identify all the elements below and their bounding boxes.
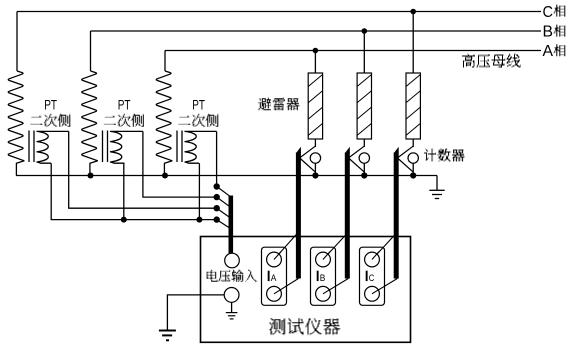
- terminal IB bottom: [316, 286, 331, 301]
- label 二次侧 (PT2): [104, 114, 144, 127]
- clamp upper jaw counter 3: [398, 146, 413, 157]
- wire PT2 secondary hot lead: [143, 131, 217, 197]
- terminal block IB: [311, 247, 336, 305]
- wire PT3 primary drop from bus: [164, 51, 166, 72]
- inductor PT1 primary winding: [8, 71, 24, 161]
- wire instrument earth lead: [167, 295, 224, 330]
- arrester F2 (hatched body): [357, 73, 371, 139]
- cable voltage test lead (thick): [229, 196, 234, 259]
- svg-text:A: A: [543, 43, 554, 60]
- svg-text:C: C: [369, 273, 375, 284]
- terminal block IA: [262, 247, 287, 305]
- cable current test lead 2 (thick): [345, 153, 350, 279]
- arrester F3 (hatched body): [406, 73, 420, 139]
- svg-text:PT: PT: [44, 96, 57, 112]
- instrument box 测试仪器: [201, 237, 411, 343]
- wire tie 4 to voltage cable: [217, 220, 230, 229]
- transformer core PT2: [102, 131, 104, 163]
- terminal voltage input top: [225, 253, 240, 268]
- wire PT1 primary bottom to ground line: [16, 161, 24, 176]
- wire arrester 2 riser: [363, 31, 365, 73]
- wire arrester 1 bottom lead: [314, 139, 316, 147]
- wire arrester 3 bottom lead: [412, 139, 414, 147]
- cable current test lead 1 (thick): [296, 153, 301, 279]
- inductor PT3 primary winding: [156, 71, 172, 161]
- label high-voltage busbar 高压母线: [462, 54, 521, 68]
- node arrester 2 bus junction: [362, 28, 368, 34]
- transformer core PT1: [28, 131, 30, 163]
- label IB: [317, 271, 319, 281]
- wire arrester 3 riser: [412, 12, 414, 74]
- wire clamp IB top: [323, 233, 348, 260]
- wire PT3 primary bottom to ground line: [164, 161, 172, 176]
- wire PT1 primary drop from bus: [16, 12, 18, 72]
- wire PT1 secondary hot lead (drop and run to bundle): [69, 131, 217, 208]
- clamp wedge 1: [296, 147, 301, 153]
- wire PT3 secondary hot lead drop: [216, 131, 218, 186]
- node bundle wire 1: [214, 183, 220, 189]
- wire tie 3 to voltage cable: [217, 208, 230, 217]
- terminal IC top: [365, 252, 380, 267]
- terminal IC bottom: [365, 286, 380, 301]
- node bundle wire 4: [214, 216, 220, 222]
- wire clamp IB bottom: [323, 279, 348, 294]
- clamp lower jaw counter 1: [300, 159, 315, 172]
- wire clamp IA top inner: [274, 252, 281, 260]
- arrester F1 (hatched body): [308, 73, 322, 139]
- counter 2 (discharge counter): [359, 153, 369, 163]
- clamp wedge 2: [345, 147, 350, 153]
- wire clamp IA top: [274, 233, 298, 260]
- wire PT2 primary bottom to ground line: [90, 161, 98, 176]
- clamp lower jaw counter 3: [398, 159, 413, 172]
- terminal IA top: [267, 252, 282, 267]
- node arrester 3 bus junction: [410, 9, 416, 15]
- clamp upper jaw counter 1: [300, 146, 315, 157]
- clamp upper jaw counter 2: [349, 146, 364, 157]
- node PT2 primary earth junction: [88, 173, 94, 179]
- svg-text:B: B: [320, 273, 326, 284]
- clamp wedge 3: [394, 147, 399, 153]
- node counter 1 earth junction: [312, 172, 318, 178]
- label 二次侧 (PT3): [178, 114, 218, 127]
- wire clamp IA bottom inner: [274, 289, 281, 294]
- inductor PT2 secondary winding: [111, 131, 143, 163]
- svg-text:B: B: [543, 24, 554, 41]
- wire clamp IC bottom inner: [372, 289, 379, 294]
- wire counter 3 bottom lead: [412, 163, 414, 175]
- counter 3 (discharge counter): [408, 153, 418, 163]
- wire PT2 primary drop from bus: [90, 31, 92, 71]
- ground (earth for arrester counters): [436, 176, 438, 191]
- node PT3 primary earth junction: [162, 173, 168, 179]
- wire PT3 secondary return drop: [198, 163, 200, 219]
- node bundle wire 2: [214, 194, 220, 200]
- label 二次侧 (PT1): [30, 114, 70, 127]
- ground (instrument internal): [231, 302, 233, 312]
- counter 1 (discharge counter): [310, 153, 320, 163]
- terminal block IC: [360, 247, 385, 305]
- wire arrester 1 riser: [314, 51, 316, 74]
- svg-text:PT: PT: [118, 96, 131, 112]
- wire tie 1 to voltage cable: [217, 187, 230, 197]
- label IA: [268, 271, 270, 281]
- wire clamp IB top inner: [323, 252, 330, 260]
- wire bus B phase: [91, 30, 542, 32]
- wire clamp IC top: [372, 233, 397, 260]
- svg-text:PT: PT: [192, 96, 205, 112]
- inductor PT3 secondary winding: [185, 131, 217, 163]
- terminal IB top: [316, 252, 331, 267]
- wire clamp IC top inner: [372, 252, 379, 260]
- label 计数器: [424, 149, 465, 162]
- wire clamp IA bottom: [274, 279, 298, 294]
- label 避雷器: [258, 97, 300, 110]
- terminal IA bottom: [267, 286, 282, 301]
- node bundle wire 3: [214, 205, 220, 211]
- clamp lower jaw counter 2: [349, 159, 364, 172]
- node PT3 return junction: [196, 217, 202, 223]
- wire arrester 2 bottom lead: [363, 139, 365, 147]
- wire common earth line: [16, 175, 437, 177]
- terminal voltage input bottom: [224, 288, 239, 303]
- svg-text:A: A: [271, 273, 277, 284]
- transformer core PT3: [176, 131, 178, 163]
- node counter 3 earth junction: [410, 172, 416, 178]
- wire bus C phase: [17, 11, 541, 13]
- ground (station earth, bottom left): [159, 330, 176, 332]
- label IC: [366, 271, 368, 281]
- node PT2 return junction: [121, 217, 127, 223]
- wire clamp IB bottom inner: [323, 289, 330, 294]
- label 电压输入: [206, 270, 257, 282]
- wire PT2 secondary return drop: [123, 163, 125, 219]
- inductor PT1 secondary winding: [37, 131, 69, 163]
- label 测试仪器: [270, 318, 341, 335]
- inductor PT2 primary winding: [82, 71, 98, 161]
- wire tie 2 to voltage cable: [217, 197, 230, 207]
- wire counter 2 bottom lead: [363, 163, 365, 175]
- wire bus A phase: [165, 50, 541, 52]
- wire PT1 secondary return lead / bottom bundle line: [51, 163, 217, 219]
- wire clamp IC bottom: [372, 279, 397, 294]
- cable current test lead 3 (thick): [394, 153, 399, 279]
- node counter 2 earth junction: [361, 172, 367, 178]
- node arrester 1 bus junction: [313, 48, 319, 54]
- svg-text:C: C: [543, 4, 554, 21]
- wire counter 1 bottom lead: [314, 163, 316, 175]
